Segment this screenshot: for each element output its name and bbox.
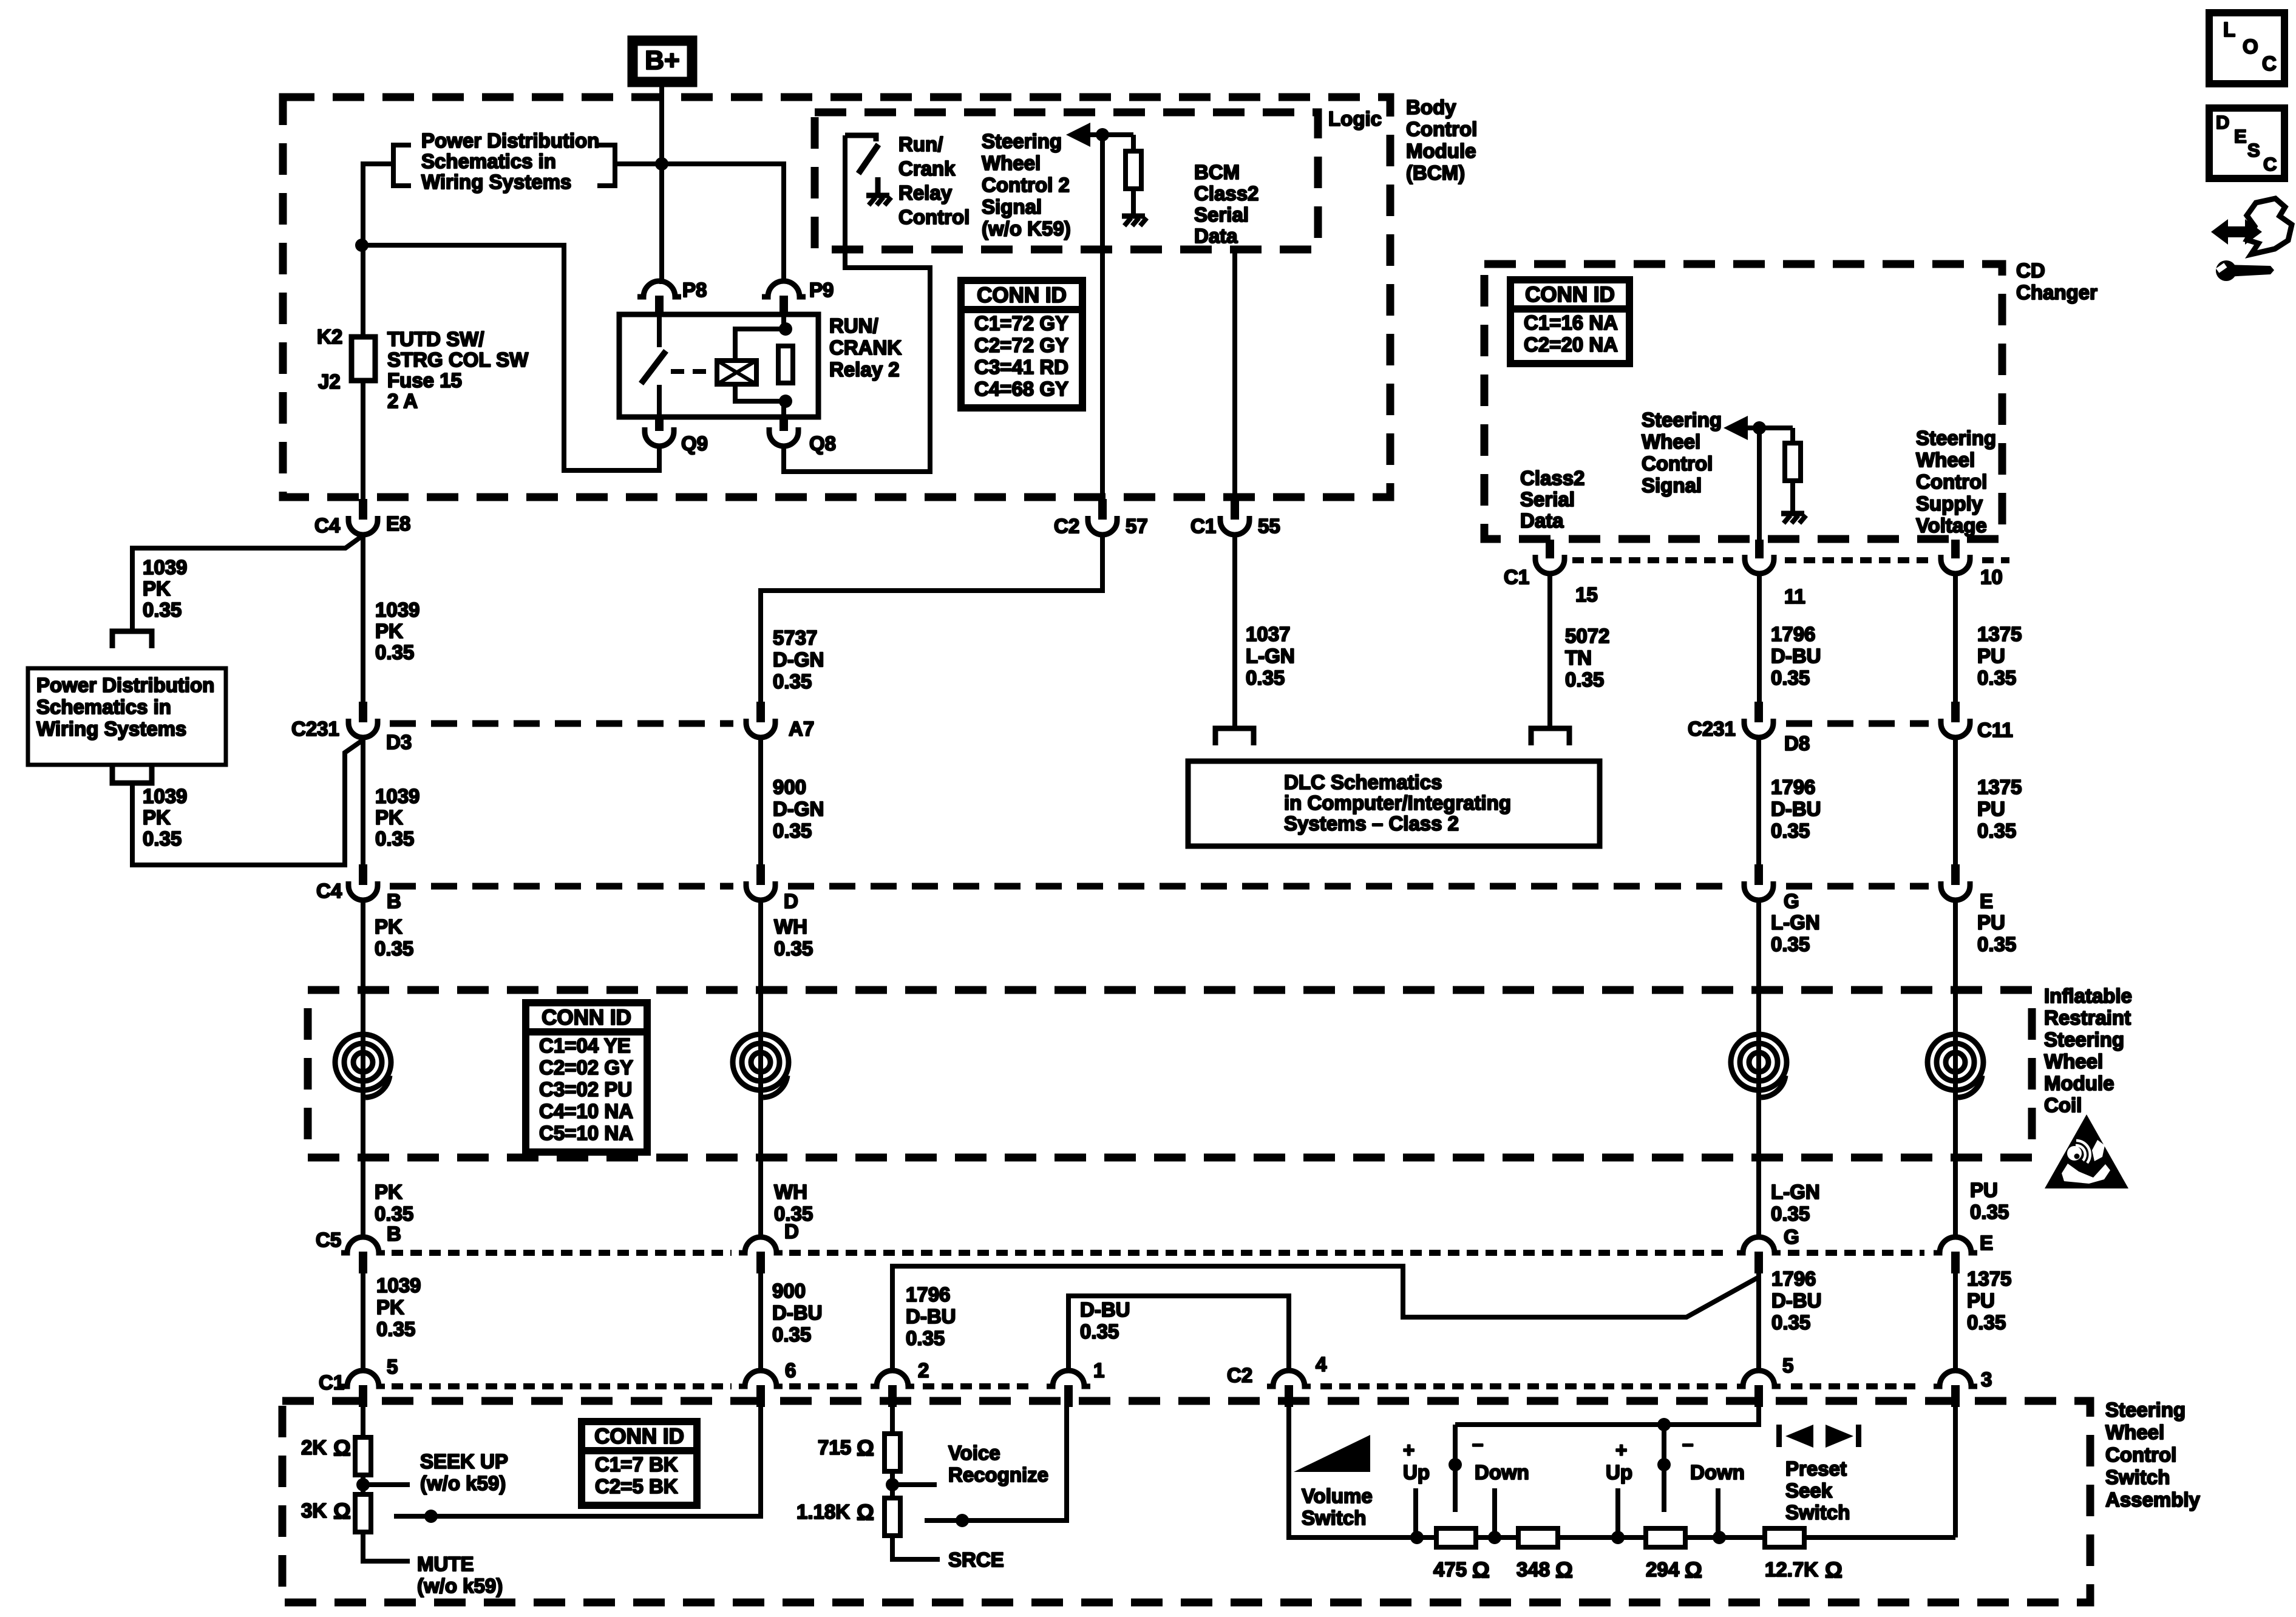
svg-text:CONN ID: CONN ID (977, 283, 1067, 307)
svg-text:C3=41 RD: C3=41 RD (974, 356, 1068, 378)
contact down (volume) (1449, 1425, 1462, 1512)
svg-text:5: 5 (387, 1355, 398, 1378)
svg-text:D-BU: D-BU (1771, 798, 1821, 820)
svg-text:1375: 1375 (1967, 1267, 2011, 1290)
svg-text:A7: A7 (789, 717, 814, 740)
svg-text:Supply: Supply (1916, 492, 1983, 515)
coil spiral 4 (1927, 1034, 1983, 1097)
svg-text:E: E (1980, 1232, 1993, 1254)
svg-text:0.35: 0.35 (1970, 1201, 2009, 1223)
coil spiral 2 (733, 1034, 789, 1097)
connector C4 G (1744, 864, 1773, 900)
svg-text:D: D (2216, 112, 2229, 133)
svg-text:Power Distribution: Power Distribution (421, 129, 599, 152)
svg-text:C1=04 YE: C1=04 YE (539, 1034, 631, 1057)
svg-text:B+: B+ (645, 46, 679, 75)
svg-text:C1=16 NA: C1=16 NA (1524, 311, 1618, 334)
svg-text:C1=7 BK: C1=7 BK (595, 1453, 678, 1476)
connector C1 55 (1220, 499, 1249, 535)
label 6 (785, 1359, 796, 1381)
svg-text:–: – (1472, 1432, 1483, 1455)
svg-text:PK: PK (143, 577, 171, 600)
svg-text:Ω: Ω (1685, 1558, 1702, 1582)
label PK 0.35 (lower) (375, 1181, 413, 1225)
svg-text:0.35: 0.35 (1246, 666, 1285, 689)
svg-text:PK: PK (376, 1296, 404, 1318)
svg-text:0.35: 0.35 (1771, 933, 1810, 955)
svg-text:Inflatable: Inflatable (2044, 985, 2132, 1007)
wire 1796 D-BU pin 2 jog to G (892, 1266, 1759, 1371)
svg-text:L-GN: L-GN (1771, 1181, 1820, 1203)
labels C231 D8 (1688, 717, 1810, 754)
svg-text:O: O (2243, 35, 2258, 58)
svg-text:D: D (784, 1220, 799, 1242)
reference box DLC Schematics in Computer/Integrating Systems - Class 2 (1188, 761, 1600, 846)
wire 5072 TN C1 15 to DLC (1547, 574, 1552, 726)
label fuse text (387, 328, 529, 412)
table CONN ID (coil module) (526, 1003, 647, 1152)
label Body Control Module (BCM) (1406, 96, 1477, 184)
svg-text:C231: C231 (291, 717, 339, 740)
svg-text:1796: 1796 (1771, 776, 1815, 798)
wire 900 D-GN A7 to C4 D (758, 737, 763, 864)
module box Inflatable Restraint Steering Wheel Module Coil (308, 990, 2032, 1158)
svg-text:Ω: Ω (857, 1436, 874, 1460)
label Steering Wheel Control Signal (1642, 408, 1722, 497)
contact stub (volume down) (1492, 1488, 1497, 1537)
label circuit 1375 PU 0.35 (mid) (1977, 776, 2022, 842)
label circuit 900 D-GN 0.35 (773, 776, 824, 842)
label L-GN 0.35 (lower) (1771, 1181, 1820, 1225)
label circuit 1796 D-BU 0.35 (mid) (1771, 776, 1821, 842)
label circuit 1039 PK 0.35 (375, 598, 419, 663)
relay coil junctions (779, 322, 792, 408)
label Class2 Serial Data (1520, 467, 1584, 532)
label G (C4) (1784, 890, 1799, 912)
label circuit 1039 PK 0.35 (lower branch) (143, 785, 187, 850)
svg-text:Volume: Volume (1302, 1485, 1373, 1507)
icon wiring repair (arrow and wrench) (2211, 198, 2292, 281)
svg-text:1037: 1037 (1246, 623, 1290, 645)
label Run/Crank Relay Control (898, 133, 970, 228)
svg-text:P8: P8 (682, 279, 707, 301)
connector 10 (1941, 540, 1970, 574)
contact stub (seek down) (1716, 1488, 1720, 1537)
wire SRCE tap (892, 1536, 940, 1559)
svg-text:Control 2: Control 2 (982, 174, 1070, 196)
svg-text:0.35: 0.35 (143, 598, 182, 621)
label 715 ohm (818, 1436, 874, 1460)
resistor 3K (355, 1494, 371, 1532)
svg-text:C2=02 GY: C2=02 GY (539, 1056, 633, 1079)
svg-text:CONN ID: CONN ID (542, 1006, 631, 1029)
wire 715 to 1.18K (890, 1471, 895, 1498)
svg-text:Ω: Ω (1555, 1558, 1573, 1582)
label circuit 1039 PK 0.35 (bottom) (376, 1274, 421, 1340)
svg-text:D-GN: D-GN (773, 648, 824, 671)
svg-text:C: C (2262, 52, 2277, 75)
svg-text:Up: Up (1606, 1461, 1632, 1483)
svg-text:STRG COL SW: STRG COL SW (387, 348, 529, 371)
svg-text:C4: C4 (314, 514, 341, 537)
label circuit 1796 D-BU 0.35 (bottom) (1771, 1267, 1821, 1334)
off-page reference Power Distribution Schematics in Wiring Systems (top) (393, 129, 615, 193)
svg-text:Recognize: Recognize (948, 1463, 1048, 1486)
svg-text:L: L (2223, 18, 2235, 41)
wire pin 5 to switch contacts (1455, 1406, 1759, 1431)
svg-text:+: + (1403, 1439, 1415, 1461)
svg-text:C2=72 GY: C2=72 GY (974, 334, 1068, 356)
table CONN ID (switch assembly) (582, 1422, 697, 1505)
node Voice Recognize tap (886, 1478, 937, 1491)
svg-text:Preset: Preset (1785, 1457, 1847, 1480)
svg-text:Wheel: Wheel (982, 152, 1041, 174)
label Voice Recognize (948, 1442, 1048, 1486)
label - Down (volume) (1472, 1432, 1529, 1483)
signal arrow Steering Wheel Control 2 Signal (1066, 123, 1133, 147)
label SEEK UP (w/o k59) (420, 1450, 508, 1494)
svg-text:Signal: Signal (982, 195, 1042, 218)
node junction SWC signal (1753, 421, 1766, 435)
svg-text:0.35: 0.35 (375, 641, 414, 663)
svg-text:PK: PK (375, 806, 403, 829)
svg-text:0.35: 0.35 (772, 1323, 811, 1346)
label circuit 900 D-BU 0.35 (772, 1280, 822, 1346)
power symbol B+ (633, 41, 692, 82)
wire 900 D-BU D to pin 6 (758, 1272, 763, 1371)
wire 1039 PK D3 to C4 B (361, 737, 365, 864)
connector P9 (762, 281, 806, 314)
svg-text:Steering: Steering (2105, 1398, 2186, 1421)
svg-text:C1: C1 (1190, 515, 1216, 537)
svg-text:C1: C1 (319, 1371, 344, 1394)
svg-text:Class2: Class2 (1520, 467, 1584, 489)
connector C2 4 (1267, 1371, 1311, 1407)
svg-text:2K: 2K (301, 1436, 327, 1459)
wire bracket to fuse K2 (363, 164, 393, 337)
label 1.18K ohm (796, 1500, 874, 1525)
warning triangle SRS airbag (2045, 1114, 2128, 1188)
svg-text:Q8: Q8 (809, 432, 836, 455)
svg-text:Up: Up (1403, 1461, 1430, 1483)
svg-text:Logic: Logic (1328, 107, 1382, 130)
label Volume Switch (1302, 1485, 1373, 1529)
svg-text:K2: K2 (317, 325, 342, 348)
connector row C1/C2 (switch assembly) dashed line (392, 1383, 1921, 1389)
svg-text:Restraint: Restraint (2044, 1006, 2131, 1029)
relay coil box (717, 361, 756, 384)
wire pin 5 into switch (361, 1406, 365, 1437)
wire 5737 D-GN C2 57 to C231 A7 (761, 532, 1102, 702)
svg-text:0.35: 0.35 (375, 827, 414, 850)
label + Up (volume) (1403, 1439, 1430, 1483)
svg-text:D8: D8 (1784, 732, 1810, 754)
svg-text:(w/o k59): (w/o k59) (417, 1575, 503, 1597)
label Inflatable Restraint Steering Wheel Module Coil (2044, 985, 2132, 1116)
connector C4 E (1941, 864, 1970, 900)
svg-text:PK: PK (375, 620, 403, 642)
svg-text:SEEK UP: SEEK UP (420, 1450, 508, 1473)
svg-text:Wiring Systems: Wiring Systems (421, 171, 571, 193)
svg-text:TUTD SW/: TUTD SW/ (387, 328, 484, 350)
off-page bracket DLC right (1531, 728, 1569, 745)
svg-text:PK: PK (375, 1181, 402, 1203)
svg-text:Data: Data (1194, 225, 1238, 247)
label circuit 5737 D-GN 0.35 (773, 626, 824, 693)
table CONN ID (BCM connectors) (961, 280, 1082, 408)
svg-text:Relay 2: Relay 2 (829, 358, 900, 381)
svg-text:Steering: Steering (1642, 408, 1722, 431)
svg-text:P9: P9 (809, 279, 834, 301)
label P8 (682, 279, 707, 301)
svg-text:5: 5 (1782, 1354, 1793, 1377)
svg-text:CONN ID: CONN ID (1525, 283, 1615, 307)
svg-text:S: S (2247, 140, 2260, 161)
svg-text:D-GN: D-GN (773, 798, 824, 820)
svg-text:D-BU: D-BU (906, 1305, 956, 1327)
label - Down (seek) (1682, 1432, 1745, 1483)
icon DESC box (2209, 108, 2284, 178)
connector pin 2 (871, 1371, 914, 1407)
connector C4 D (746, 864, 775, 900)
inner box BCM Logic (815, 112, 1318, 249)
svg-text:Run/: Run/ (898, 133, 943, 155)
svg-text:Ω: Ω (333, 1499, 351, 1524)
svg-text:1796: 1796 (906, 1283, 950, 1306)
label WH 0.35 (lower) (774, 1181, 813, 1225)
svg-text:5072: 5072 (1565, 625, 1609, 647)
svg-text:0.35: 0.35 (906, 1327, 945, 1349)
svg-text:1375: 1375 (1977, 623, 2022, 645)
label C11 (1977, 719, 2013, 741)
label RUN/CRANK Relay 2 (829, 314, 902, 381)
svg-text:Ω: Ω (333, 1436, 351, 1460)
wire E8 branch to power distribution reference (132, 535, 363, 630)
module box Steering Wheel Control Switch Assembly (282, 1401, 2090, 1602)
svg-text:1039: 1039 (375, 785, 419, 807)
wire PK B through coil (361, 900, 365, 1232)
svg-text:0.35: 0.35 (1771, 1311, 1810, 1334)
label 2K ohm (301, 1436, 351, 1460)
label Steering Wheel Control Switch Assembly (2105, 1398, 2201, 1511)
connector C2 57 (1088, 499, 1117, 535)
icon preset seek |< >| (1776, 1425, 1861, 1448)
resistor chain with taps (1410, 1528, 1955, 1547)
svg-text:Control: Control (1916, 470, 1987, 493)
label SRCE (948, 1548, 1004, 1571)
wire wiper to pin 6 (394, 1406, 761, 1523)
svg-text:1039: 1039 (376, 1274, 421, 1297)
svg-text:3: 3 (1981, 1368, 1992, 1391)
svg-text:(w/o k59): (w/o k59) (420, 1472, 506, 1494)
label BCM Class2 Serial Data (1194, 161, 1258, 247)
connector pin 1 (1047, 1371, 1090, 1407)
connector C4 B (348, 864, 378, 900)
svg-text:Seek: Seek (1785, 1479, 1833, 1502)
svg-text:Q9: Q9 (681, 432, 708, 455)
labels C1 55 (1190, 515, 1280, 537)
node SEEK UP tap (356, 1478, 410, 1491)
wire pin 2 into switch (890, 1406, 895, 1434)
connector P8 (637, 281, 681, 314)
label 348 ohm (1517, 1558, 1573, 1582)
wire power distribution to C231 D3 (132, 740, 363, 865)
resistor to ground (CD changer) (1781, 428, 1806, 523)
svg-text:+: + (1615, 1439, 1627, 1461)
svg-text:RUN/: RUN/ (829, 314, 878, 337)
wire 1796 D-BU pin 11 to C231 D8 (1757, 574, 1762, 702)
svg-text:PU: PU (1977, 911, 2005, 934)
svg-text:Data: Data (1520, 509, 1564, 532)
svg-text:715: 715 (818, 1436, 851, 1459)
connector C231 D8 (1744, 702, 1773, 737)
connector C5 D (739, 1232, 783, 1273)
wire PU E through coil (1953, 900, 1958, 1232)
svg-text:C2: C2 (1054, 515, 1079, 537)
connector C4 E8 (348, 499, 378, 535)
connector C5 B (341, 1232, 385, 1273)
svg-text:D3: D3 (386, 731, 412, 753)
label PK 0.35 (upper) (375, 915, 413, 960)
labels C2 pin 4 (1227, 1353, 1327, 1386)
off-page bracket above Power Distribution box (112, 631, 152, 648)
svg-text:BCM: BCM (1194, 161, 1240, 183)
svg-text:C4: C4 (316, 880, 342, 902)
svg-text:57: 57 (1126, 515, 1148, 537)
svg-text:Serial: Serial (1520, 488, 1575, 510)
relay resistor (778, 346, 793, 383)
labels C2 57 (1054, 515, 1148, 537)
relay box RUN/CRANK Relay 2 (619, 314, 818, 417)
svg-text:2: 2 (918, 1359, 929, 1381)
connector row C1 (CD changer) dashed line (1572, 557, 2009, 563)
label circuit 1375 PU 0.35 (upper) (1977, 623, 2022, 689)
svg-text:10: 10 (1980, 566, 2003, 588)
label K2 (317, 325, 342, 348)
label circuit 1039 PK 0.35 (branch) (143, 556, 187, 621)
labels C1 15 (1504, 566, 1598, 606)
connector row C231 dashed line (390, 720, 1929, 727)
label circuit 1796 D-BU 0.35 (upper) (1771, 623, 1821, 689)
label circuit 5072 TN 0.35 (1565, 625, 1609, 691)
label E (C5) (1980, 1232, 1993, 1254)
svg-text:CRANK: CRANK (829, 336, 902, 359)
svg-text:C2: C2 (1227, 1364, 1252, 1386)
wire chain to pin 3 (1953, 1406, 1958, 1537)
wire 1375 PU E to pin 3 (1953, 1272, 1958, 1371)
svg-text:C2=20 NA: C2=20 NA (1524, 333, 1618, 356)
label + Up (seek) (1606, 1439, 1632, 1483)
relay actuator dashed link (671, 369, 717, 374)
connector C5 G (1737, 1232, 1781, 1273)
svg-text:TN: TN (1565, 646, 1592, 669)
svg-text:D-BU: D-BU (1771, 645, 1821, 667)
svg-text:C4=10 NA: C4=10 NA (539, 1100, 633, 1122)
wire 1037 L-GN C1 55 to DLC (1232, 532, 1237, 726)
svg-text:Signal: Signal (1642, 474, 1702, 497)
label PU 0.35 (upper) (1977, 911, 2016, 955)
label Q9 (681, 432, 708, 455)
svg-text:Coil: Coil (2044, 1094, 2082, 1116)
svg-text:0.35: 0.35 (1977, 819, 2016, 842)
connector pin 5 (right) (1737, 1371, 1781, 1407)
connector Q9 (645, 417, 674, 446)
svg-text:0.35: 0.35 (773, 670, 812, 693)
off-page bracket below Power Distribution box (112, 766, 152, 783)
svg-text:B: B (387, 1222, 401, 1245)
svg-text:Body: Body (1406, 96, 1456, 118)
wire 2K to 3K (361, 1475, 365, 1494)
svg-text:(BCM): (BCM) (1406, 161, 1465, 184)
icon volume switch ramp (1294, 1435, 1370, 1472)
svg-text:1039: 1039 (375, 598, 419, 621)
label 2 (918, 1359, 929, 1381)
labels C5 B (316, 1222, 401, 1251)
connector C231 D3 (348, 702, 378, 737)
label WH 0.35 (upper) (774, 915, 813, 960)
svg-text:1039: 1039 (143, 785, 187, 807)
svg-text:J2: J2 (318, 370, 341, 393)
label 3K ohm (301, 1499, 351, 1524)
svg-text:Schematics in: Schematics in (421, 150, 556, 172)
svg-text:C5: C5 (316, 1229, 341, 1251)
off-page bracket DLC left (1215, 728, 1254, 745)
resistor to ground (BCM SWC2) (1122, 135, 1147, 226)
svg-text:E: E (1980, 890, 1993, 912)
signal arrow Steering Wheel Control Signal (1724, 416, 1793, 440)
svg-text:Fuse 15: Fuse 15 (387, 369, 462, 392)
connector C1 15 (1535, 540, 1564, 574)
wire pin 4 to resistor chain (1289, 1406, 1417, 1537)
label A7 (789, 717, 814, 740)
svg-text:G: G (1784, 890, 1799, 912)
svg-text:Control: Control (2105, 1443, 2176, 1466)
wire SWC signal to pin 11 (1757, 428, 1762, 540)
svg-text:348: 348 (1517, 1558, 1550, 1581)
connector C231 C11 (1941, 702, 1970, 737)
connector row C5 dashed line (392, 1250, 1924, 1256)
connector row C4 dashed line (390, 883, 1929, 890)
svg-text:Assembly: Assembly (2105, 1488, 2201, 1511)
svg-text:Voltage: Voltage (1916, 514, 1987, 537)
svg-text:0.35: 0.35 (1771, 819, 1810, 842)
svg-text:in Computer/Integrating: in Computer/Integrating (1284, 792, 1511, 814)
svg-text:SRCE: SRCE (948, 1548, 1004, 1571)
svg-text:D: D (784, 890, 798, 912)
label E (C4) (1980, 890, 1993, 912)
svg-text:15: 15 (1575, 583, 1598, 606)
resistor 2K (355, 1437, 371, 1475)
resistor 715 ohm (885, 1434, 900, 1471)
svg-text:Systems – Class 2: Systems – Class 2 (1284, 812, 1459, 835)
svg-text:0.35: 0.35 (375, 1202, 413, 1225)
wire 1375 PU C11 to E (1953, 738, 1958, 864)
label Steering Wheel Control Supply Voltage (1916, 427, 1996, 537)
svg-text:MUTE: MUTE (417, 1553, 474, 1575)
label G (C5) (1784, 1225, 1799, 1248)
wire D-BU pin 1 to pin 4 (1068, 1296, 1289, 1371)
coil spiral 3 (1731, 1034, 1787, 1097)
wire branch to relay Q9 (363, 245, 659, 470)
svg-text:Ω: Ω (1472, 1558, 1490, 1582)
svg-text:C1: C1 (1504, 566, 1529, 588)
wire fuse to connector C4 E8 (361, 381, 365, 499)
svg-text:C11: C11 (1977, 719, 2013, 741)
relay switch contact (641, 314, 666, 417)
wire BCM Class2 Serial Data to connector C1 55 (1232, 249, 1237, 499)
contact stub (seek up) (1615, 1488, 1620, 1537)
svg-text:PU: PU (1977, 645, 2005, 667)
